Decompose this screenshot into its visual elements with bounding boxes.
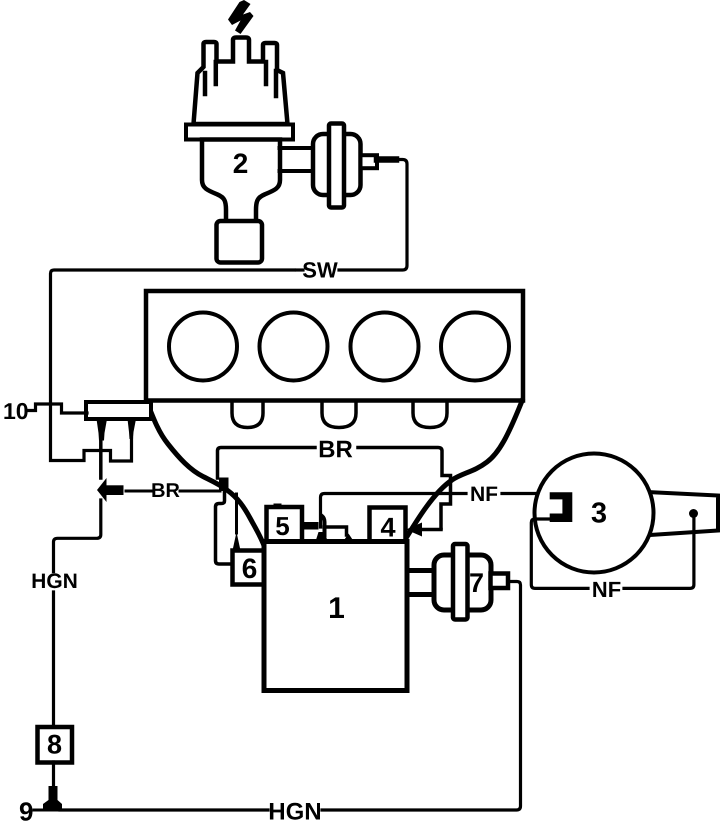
wire junction to box 6 left: [216, 488, 233, 564]
arrow foot on box 1: [344, 534, 354, 542]
box 1 control unit: [264, 542, 407, 691]
lead of terminal 10: [29, 404, 87, 413]
wire pin1 down to BR terminal: [99, 440, 103, 478]
thick output bar of box 5: [302, 522, 319, 530]
wire to second injector foot: [324, 527, 347, 535]
wedge appendage of sensor 3: [647, 492, 718, 535]
sensor 7 center bar: [453, 544, 468, 620]
sensor 3 circle: [535, 454, 654, 573]
BR terminal arrow: [97, 478, 107, 502]
box 6: [233, 551, 266, 585]
manifold bump 1: [232, 402, 263, 428]
label 10: [4, 403, 27, 419]
label BR left: [152, 483, 179, 497]
pin 2: [128, 419, 137, 439]
label SW: [303, 262, 338, 278]
pin 1: [97, 419, 108, 441]
cylinder 3: [351, 313, 419, 381]
wire junction to box 6 top: [235, 494, 238, 533]
wire box 8 to ground terminal 9: [52, 762, 55, 787]
wire SW left run down to terminal 10 area: [51, 270, 295, 461]
wire HGN bottom: [60, 808, 268, 811]
NF drop onto box 1: [322, 516, 325, 535]
label BR top: [320, 441, 353, 458]
wire HGN left vertical: [52, 592, 55, 727]
distributor body: [202, 140, 280, 223]
cap inner tower wall lines: [205, 62, 276, 96]
label 7: [470, 573, 483, 592]
vacuum unit center bar: [329, 124, 344, 208]
wire BR top right side: [358, 448, 451, 529]
label 8: [48, 735, 61, 754]
junction on funnel curve: [219, 478, 229, 492]
manifold bump 3: [413, 402, 447, 428]
wire BR top loop: [218, 448, 316, 479]
arrow into box 6 top: [233, 532, 241, 551]
distributor 2 cap: [194, 38, 288, 125]
wire into box 4: [421, 528, 441, 532]
connector block on sensor 3: [550, 492, 573, 522]
wire BR left: [126, 490, 220, 493]
connector rail 10: [86, 402, 151, 419]
label HGN left: [33, 573, 77, 588]
sensor 7 nipple: [491, 574, 509, 589]
manifold funnel right curve: [404, 401, 522, 542]
manifold funnel left curve: [147, 402, 265, 547]
vacuum hose tube: [280, 148, 315, 171]
cylinder 4: [441, 313, 509, 381]
label NF bottom: [593, 582, 620, 597]
box 8: [38, 727, 73, 763]
box 5: [267, 507, 303, 543]
label HGN bottom: [270, 803, 320, 820]
cylinder 2: [260, 313, 328, 381]
label 9: [20, 802, 33, 821]
NF foot on box 1: [316, 532, 328, 542]
label 2: [234, 153, 248, 173]
spark lightning bolt: [228, 0, 254, 34]
stub tube from box 1 to sensor 7: [408, 571, 435, 595]
thick stub at nipple: [377, 156, 396, 163]
wire from sensor 7 down to HGN: [322, 582, 521, 811]
box 4: [370, 508, 406, 543]
dot terminal in wedge: [689, 509, 698, 518]
label 1: [330, 597, 344, 618]
label NF right: [471, 487, 497, 501]
BR terminal thick stub: [105, 485, 124, 495]
label 3: [592, 502, 606, 523]
wire SW from vacuum unit: [339, 160, 407, 271]
manifold bump 2: [322, 402, 356, 428]
arrow into box 4: [406, 523, 422, 537]
distributor shaft block: [217, 221, 263, 263]
lead label 9: [34, 809, 44, 812]
vacuum unit nipple: [361, 155, 378, 168]
label 4: [381, 518, 396, 537]
wire NF lower loop: [531, 515, 694, 588]
engine block: [146, 291, 523, 401]
vacuum advance unit body: [313, 134, 361, 195]
cylinder 1: [169, 313, 237, 381]
label 6: [243, 558, 257, 578]
wire SW dash: [297, 268, 304, 271]
wire NF upper: [321, 494, 553, 528]
label 5: [276, 517, 289, 535]
terminal 9 blob: [43, 786, 62, 812]
distributor collar flange: [186, 125, 293, 140]
sensor 7 body: [434, 555, 491, 610]
wire BR terminal down to HGN branch: [54, 500, 101, 572]
tick on box 5 top: [274, 504, 282, 509]
